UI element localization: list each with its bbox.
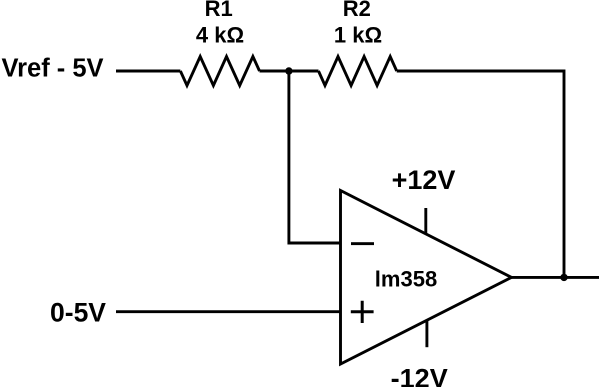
svg-text:Vref - 5V: Vref - 5V <box>2 54 104 82</box>
svg-text:0-5V: 0-5V <box>50 297 106 327</box>
svg-text:1 kΩ: 1 kΩ <box>334 23 382 48</box>
svg-text:+12V: +12V <box>392 165 456 195</box>
junction node between R1 and R2 <box>285 67 292 74</box>
svg-text:lm358: lm358 <box>375 266 437 291</box>
wire R1 to R2 <box>260 70 319 73</box>
output junction node <box>560 274 567 281</box>
svg-text:R2: R2 <box>343 0 371 21</box>
resistor R1 <box>180 57 259 86</box>
wire op-amp output <box>512 276 600 279</box>
wire R2 to top-right corner and down to output <box>397 71 564 277</box>
op-amp inverting input minus sign <box>351 242 374 245</box>
svg-text:4 kΩ: 4 kΩ <box>196 23 244 48</box>
wire junction down to inverting input <box>289 71 341 243</box>
op-amp non-inverting input plus sign <box>351 301 374 323</box>
resistor R2 <box>319 57 397 86</box>
op-amp U1 triangle <box>341 191 512 365</box>
wire Vref lead <box>116 70 180 73</box>
wire 0-5V to non-inverting input <box>116 310 341 313</box>
op-amp V- pin <box>425 321 428 348</box>
op-amp V+ pin <box>424 208 427 234</box>
svg-text:R1: R1 <box>205 0 233 21</box>
svg-text:-12V: -12V <box>391 363 448 387</box>
